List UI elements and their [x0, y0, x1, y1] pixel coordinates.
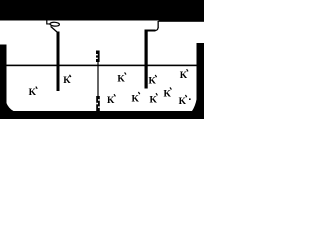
- bottom letterbox band: [0, 111, 204, 119]
- ion label K+ right compartment 8: [179, 95, 187, 107]
- svg-text:K: K: [132, 94, 140, 104]
- ion label K+ right compartment 3: [180, 69, 188, 81]
- svg-text:K: K: [29, 88, 37, 98]
- left electrode: [57, 32, 60, 92]
- right wire horizontal segment: [146, 30, 156, 32]
- membrane bottom hatched plug: [96, 96, 100, 111]
- stray ion mark far right: [189, 98, 191, 100]
- right electrode: [145, 30, 148, 89]
- svg-text:K: K: [180, 71, 188, 81]
- ion label K+ right compartment 7: [164, 87, 172, 99]
- ion label K+ right compartment 4: [107, 94, 115, 106]
- svg-text:K: K: [117, 74, 125, 84]
- tank right wall: [197, 43, 205, 119]
- ion label K+ right compartment 5: [132, 92, 140, 104]
- svg-text:K: K: [179, 97, 187, 107]
- svg-text:K: K: [149, 77, 157, 87]
- ion label K+ right compartment 2: [149, 75, 157, 87]
- top band step (thicker right part): [159, 0, 205, 22]
- ion label K+ right compartment 1: [117, 72, 126, 84]
- tank left wall: [0, 45, 7, 120]
- ion label K+ left compartment upper: [63, 75, 71, 86]
- membrane top hatched plug: [96, 51, 100, 63]
- ion label K+ right compartment 6: [150, 93, 158, 105]
- left wire horizontal tick: [47, 23, 51, 24]
- left wire diagonal to electrode: [51, 26, 58, 32]
- tank right wall bottom corner flare: [192, 100, 197, 112]
- ion label K+ left compartment lower: [29, 87, 38, 98]
- left wire vertical stub: [46, 20, 47, 25]
- top letterbox band: [0, 0, 204, 21]
- svg-text:K: K: [150, 96, 158, 106]
- svg-text:K: K: [107, 96, 115, 106]
- tank left wall bottom corner flare: [6, 102, 14, 111]
- water surface line: [6, 65, 197, 67]
- membrane thin line: [97, 61, 98, 97]
- right wire bend arc: [155, 28, 158, 31]
- svg-text:K: K: [63, 76, 71, 86]
- left wire loop (ellipse): [50, 22, 60, 26]
- right wire vertical segment: [158, 21, 159, 28]
- svg-text:K: K: [164, 89, 172, 99]
